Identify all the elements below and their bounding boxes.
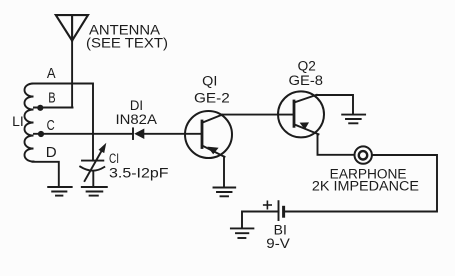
svg-text:GE-2: GE-2 (194, 91, 230, 106)
battery B1 (279, 201, 284, 220)
wire tap A to junction column (33, 84, 94, 134)
svg-text:Q2: Q2 (298, 59, 316, 74)
svg-text:A: A (47, 66, 56, 82)
variable capacitor C1 (80, 143, 106, 181)
ground (Q1) (214, 188, 236, 197)
ground (Q2) (342, 115, 365, 124)
svg-text:DI: DI (130, 98, 143, 113)
svg-text:(SEE TEXT): (SEE TEXT) (86, 35, 168, 50)
svg-text:GE-8: GE-8 (289, 73, 324, 88)
wire C1 to ground (92, 171, 94, 186)
wire diode to Q1 base (144, 133, 201, 135)
plus sign (264, 201, 272, 208)
ground (coil) (48, 187, 71, 196)
svg-text:B: B (48, 91, 55, 107)
wire tap C to diode D1 (34, 133, 133, 135)
svg-text:3.5-I2pF: 3.5-I2pF (109, 166, 169, 181)
ground (C1) (82, 187, 107, 196)
wire Q2 collector to ground (317, 95, 353, 114)
wire tap B to antenna lead (34, 107, 73, 109)
wire Q1 collector to Q2 base (222, 114, 293, 116)
diode D1 (133, 128, 144, 139)
svg-text:IN82A: IN82A (116, 112, 157, 127)
svg-text:C: C (47, 118, 55, 134)
wire coil bottom to ground (33, 162, 59, 186)
wire battery to ground (242, 212, 279, 228)
svg-text:D: D (46, 145, 57, 161)
antenna (56, 15, 88, 40)
ground (battery) (231, 228, 254, 238)
wire earphone to battery plus terminal (284, 155, 437, 212)
inductor L1 (25, 84, 34, 162)
svg-text:QI: QI (202, 74, 217, 89)
antenna label (86, 23, 168, 51)
svg-text:LI: LI (12, 114, 24, 129)
transistor Q1 (185, 111, 232, 158)
earphone (355, 146, 372, 163)
svg-text:2K IMPEDANCE: 2K IMPEDANCE (312, 179, 419, 194)
transistor Q2 (278, 91, 324, 137)
svg-text:9-V: 9-V (266, 236, 290, 251)
junction dot C (38, 131, 44, 137)
wire junction to capacitor C1 (92, 134, 94, 161)
wire Q1 emitter to ground (223, 157, 225, 186)
wire antenna lead down to tap B (71, 41, 73, 108)
junction dot B (37, 105, 43, 111)
wire Q2 emitter to earphone (318, 135, 354, 155)
svg-text:CI: CI (109, 151, 119, 166)
